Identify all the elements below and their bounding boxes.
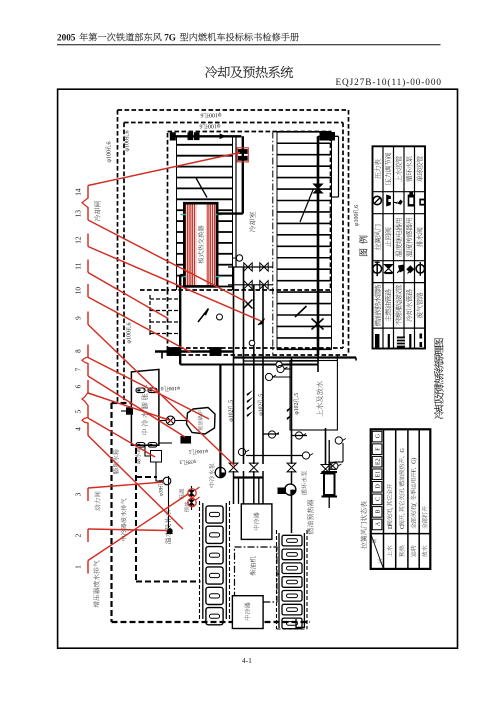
svg-text:φ100: φ100 [354, 214, 360, 226]
hole label left inner [124, 131, 131, 152]
bottom-left bank dashed enclosure [199, 501, 201, 621]
svg-text:4-1: 4-1 [242, 656, 252, 665]
bottom-right radiator elements [282, 535, 302, 546]
leader line 4 [87, 423, 89, 436]
manifold valve 2a [244, 281, 252, 289]
svg-text:φ39: φ39 [187, 458, 196, 464]
preheat boiler blob [187, 408, 216, 435]
leader line 12 [87, 234, 89, 247]
svg-text:φ100: φ100 [168, 385, 180, 391]
black arrow stack A [247, 390, 254, 396]
left bank damper vane diagonal [196, 178, 207, 198]
manifold valve 1a [244, 263, 252, 271]
page header text [57, 33, 299, 43]
bottom-left radiator elements [206, 506, 223, 523]
header underline [57, 44, 441, 46]
sensor stems [273, 376, 292, 378]
preheater valve [329, 462, 336, 469]
svg-text:3: 3 [179, 458, 182, 464]
hand valve with flag [198, 309, 209, 323]
svg-text:φ100: φ100 [127, 331, 133, 343]
svg-text:6: 6 [200, 122, 203, 128]
svg-text:D: D [375, 483, 381, 488]
svg-text:6: 6 [75, 384, 83, 388]
right radiator bank rails [276, 132, 278, 350]
svg-text:6: 6 [125, 131, 131, 134]
svg-text:,: , [388, 507, 394, 509]
hole label right of wall [353, 205, 360, 226]
leader line 9 [87, 312, 89, 325]
expansion tank [131, 369, 159, 445]
legend symbols row3 (line styles) [375, 334, 380, 348]
tank top plugs [136, 388, 145, 393]
pipe beside rail [235, 136, 237, 267]
engine feed pipes [233, 471, 235, 504]
svg-text:.5: .5 [229, 400, 235, 404]
left bank header pipe [172, 135, 241, 137]
header pipe end block [170, 133, 175, 140]
svg-text:8: 8 [75, 349, 83, 353]
fill/drain box [290, 361, 337, 431]
item number 11 [75, 262, 83, 269]
right bank collector pipe [317, 136, 320, 355]
svg-text:E2: E2 [375, 458, 381, 465]
power room dashed wall [110, 403, 112, 622]
manifold valve 2b [260, 281, 268, 289]
leader line 3 [87, 488, 89, 501]
left radiator bank rungs [177, 144, 233, 146]
legend row1 names [374, 159, 380, 179]
tiny labels beside red valves [179, 489, 184, 499]
svg-text:φ102: φ102 [294, 402, 300, 414]
bank B bottom elbow [296, 619, 304, 627]
circulation pump label [209, 463, 215, 487]
drawing title [434, 338, 443, 419]
header cells A-G [372, 431, 382, 442]
svg-text:6: 6 [106, 142, 112, 145]
water filter [151, 451, 162, 463]
manifold sensor circle [240, 257, 242, 259]
svg-text:1: 1 [75, 565, 83, 569]
fuel preheater cylinder [322, 471, 338, 473]
small hole labels mid [161, 385, 181, 392]
svg-text:3: 3 [75, 492, 83, 496]
svg-text:F: F [412, 468, 418, 472]
pump housing 1 [167, 348, 179, 356]
filter label [135, 447, 140, 465]
brace pairs [82, 198, 88, 208]
item number 13 [75, 210, 83, 218]
supercharger drain label [93, 560, 99, 607]
item number 6 [75, 384, 83, 388]
intercooler box 2 [232, 596, 263, 629]
item number 2 [75, 533, 83, 537]
state table row labels [387, 545, 392, 557]
svg-text:4: 4 [75, 427, 83, 431]
legend row2 names [374, 224, 380, 250]
diesel engine dash-dot box [235, 547, 277, 602]
svg-text:φ100: φ100 [209, 111, 221, 117]
item number 9 [75, 316, 83, 320]
document number [336, 77, 442, 87]
diagonal cell [371, 534, 384, 569]
svg-text:φ102: φ102 [258, 403, 264, 415]
svg-text:5: 5 [189, 448, 192, 454]
svg-text:7: 7 [75, 367, 83, 371]
cooling room label [249, 212, 255, 232]
inner duct dashed [135, 448, 137, 582]
louvre dashed rungs [150, 298, 180, 300]
black arrow stack B [287, 406, 293, 412]
boiler inlet valve circle [166, 416, 175, 425]
svg-text:7G: 7G [162, 33, 178, 43]
legend symbols row1 [373, 196, 381, 204]
svg-text:G): G) [411, 458, 418, 464]
state table data [387, 484, 394, 529]
svg-text:12: 12 [75, 236, 83, 244]
plate heat exchanger label [198, 225, 204, 263]
svg-text:6: 6 [127, 323, 133, 326]
riser valves [229, 463, 238, 472]
overflow pipe [168, 476, 170, 528]
plate heat exchanger center band [196, 203, 206, 286]
pump column [219, 365, 221, 479]
page title [205, 66, 293, 78]
svg-text:φ39: φ39 [159, 487, 165, 496]
svg-text:14: 14 [75, 188, 83, 196]
item number 7 [75, 367, 83, 371]
legend symbols row2 [373, 264, 382, 273]
drain dot [167, 529, 172, 534]
hole label top 1 [201, 111, 222, 118]
svg-text:.5: .5 [294, 393, 300, 397]
state table frame [371, 429, 431, 569]
item number 10 [75, 287, 83, 295]
small sensor right of hand valve [217, 314, 223, 320]
pipe from heat exchanger top to cooler valve [242, 136, 244, 213]
header flow arrow [220, 134, 227, 140]
red circled valves (item 1) [191, 486, 193, 510]
svg-text:G: G [375, 433, 381, 438]
tank drain pipe [145, 445, 151, 456]
page number [242, 656, 252, 665]
svg-text:9: 9 [75, 316, 83, 320]
header valve block [188, 133, 193, 140]
svg-text:2: 2 [75, 533, 83, 537]
green tick marks [181, 214, 187, 216]
item number 12 [75, 236, 83, 244]
cooler shutter valve (red highlight, item 14) [239, 150, 248, 154]
bottom-left radiator bank rails [202, 503, 204, 619]
leader line 11 [87, 260, 89, 273]
svg-text:10: 10 [75, 287, 83, 295]
drawing frame [58, 89, 458, 648]
item number 8 [75, 349, 83, 353]
leader line 8 [87, 345, 89, 358]
plate heat exchanger hatch [186, 203, 218, 286]
bottom-right bank dashed enclosure [276, 530, 278, 629]
engine header pipe [234, 476, 264, 478]
svg-text:φ100: φ100 [106, 150, 112, 162]
heat exchanger drop pipe [179, 275, 181, 364]
hole label left lower [126, 323, 133, 344]
svg-text:C: C [375, 497, 381, 501]
leader line 13 [87, 207, 89, 220]
svg-text:2005: 2005 [57, 33, 78, 43]
leader line 14 [87, 186, 89, 199]
hole label top 2 [200, 122, 221, 129]
tank side fitting [121, 410, 131, 412]
svg-text:φ100: φ100 [208, 122, 220, 128]
state table caption [360, 501, 366, 549]
right radiator bank rungs [277, 131, 332, 133]
legend caption [359, 236, 367, 256]
bottom-right radiator bank rails [278, 533, 280, 628]
engine to bank connector [277, 573, 279, 575]
svg-text:5: 5 [75, 409, 83, 413]
pump housing 2 [210, 348, 221, 356]
boiler outlet box [181, 437, 191, 444]
intercooler exhaust label [121, 499, 127, 541]
svg-text:;(: ;( [411, 503, 418, 506]
svg-text:6: 6 [354, 205, 360, 208]
leader line 1 [87, 561, 89, 574]
leader line 10 [87, 284, 89, 297]
X valve item 13 [244, 300, 253, 309]
cooling shutter label [94, 201, 100, 221]
svg-text:F: F [375, 447, 381, 451]
svg-text:G: G [400, 448, 406, 453]
boiler link stubs [159, 420, 166, 422]
svg-text:φ102: φ102 [229, 409, 235, 421]
svg-text:EQJ27B-10(11)-00-000: EQJ27B-10(11)-00-000 [336, 77, 442, 87]
damper flap [295, 306, 307, 317]
leader line 6 [87, 380, 89, 393]
item number 1 [75, 565, 83, 569]
svg-text:φ100: φ100 [125, 139, 131, 151]
shutter manifold line 1 [228, 266, 273, 268]
power room label [94, 492, 100, 511]
drop line right [338, 136, 340, 197]
svg-text:.5: .5 [258, 394, 264, 398]
item number 3 [75, 492, 83, 496]
right bank top tee [318, 135, 339, 137]
svg-text:13: 13 [75, 210, 83, 218]
item number 4 [75, 427, 83, 431]
middle band connectors [263, 433, 279, 435]
tank bottom plugs [136, 443, 145, 448]
leader line 5 [87, 405, 89, 418]
water fill/drain label [316, 381, 323, 416]
shutter manifold line 2 [228, 284, 273, 286]
tank label [141, 385, 148, 435]
svg-text:,: , [400, 513, 406, 515]
main bus pipes [155, 350, 234, 352]
temp sensor on heat exchanger rail [236, 255, 242, 261]
damper vane diagonal [300, 189, 314, 223]
leader line 2 [87, 529, 89, 542]
expansion tank label [113, 449, 119, 473]
left radiator bank rails [176, 136, 178, 290]
sensor circles with letters [265, 373, 272, 380]
circulation pump circle [278, 488, 287, 495]
manifold valve 1b [260, 263, 268, 271]
leader line 7 [87, 363, 89, 376]
item number 14 [75, 188, 83, 196]
X valve on collector pipe [312, 319, 324, 330]
svg-text:D: D [388, 524, 394, 529]
top damper block [320, 133, 335, 141]
fuel preheater label [307, 500, 313, 535]
cooling room outer dashed wall [118, 109, 349, 111]
riser pipes to lower section [233, 267, 235, 464]
svg-text:11: 11 [75, 262, 83, 269]
plate heat exchanger border [184, 203, 217, 286]
filter outlet pipe [156, 462, 163, 481]
overflow supply label [165, 510, 171, 544]
svg-text:A: A [375, 521, 381, 526]
svg-text:B: B [375, 510, 381, 514]
center partition dash-dot line [272, 132, 274, 356]
svg-text:.: . [400, 487, 406, 489]
item number 5 [75, 409, 83, 413]
intercooler box 1 [241, 504, 272, 540]
hole label left outer [105, 142, 112, 163]
svg-text:6: 6 [161, 385, 164, 391]
valve block on collector pipe [314, 184, 323, 193]
legend row3 names [374, 285, 380, 326]
svg-text:6: 6 [201, 111, 204, 117]
cooling room second dashed wall [124, 122, 343, 124]
cooling room inner dashed duct [168, 132, 331, 291]
svg-text:φ100: φ100 [196, 448, 208, 454]
pipe size labels [228, 400, 235, 422]
arrow item 12 [258, 318, 266, 326]
legend table frame [373, 146, 426, 348]
low temp pump labels [301, 471, 307, 495]
svg-text:E1: E1 [375, 471, 381, 478]
